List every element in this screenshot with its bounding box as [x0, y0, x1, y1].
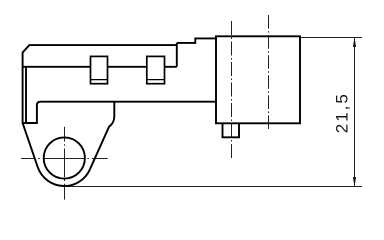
svg-text:21,5: 21,5 — [333, 92, 352, 133]
